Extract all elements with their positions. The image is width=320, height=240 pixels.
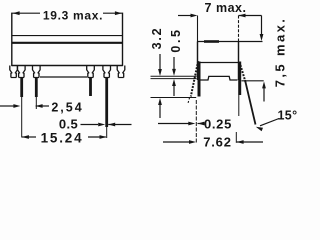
- pin 3 leg with extension to 2,54 dimension: [35, 78, 38, 98]
- seam line (end view): [198, 62, 239, 64]
- package body seam line: [12, 42, 123, 44]
- body bottom with raised centre step: [200, 76, 238, 80]
- right lead 15 deg splay (hatched): [240, 62, 246, 82]
- body left edge (end view): [197, 42, 199, 81]
- dimension 7.62 arrows and lines: [163, 141, 190, 143]
- dimension 0.5 arrows and lines: [81, 124, 99, 126]
- svg-text:7 max.: 7 max.: [205, 1, 247, 15]
- lead cross-section extension lines: [151, 75, 197, 77]
- dimension 2,54 arrows and lines: [0, 105, 15, 107]
- dimension 15.24 arrows and lines: [22, 135, 29, 139]
- pin 4 shoulder: [87, 66, 95, 78]
- pin 5 shoulder: [103, 66, 111, 78]
- svg-text:7,5 max.: 7,5 max.: [273, 17, 288, 88]
- body top edge with extension to 7,5 max.: [198, 41, 263, 43]
- extension line right (7.62): [235, 132, 237, 143]
- dimension 3.2 arrows: [159, 54, 161, 70]
- body right edge (end view): [238, 42, 240, 81]
- right lead splayed 15 deg (solid, extended): [245, 80, 256, 125]
- pin 6 (partial, right edge): [117, 66, 125, 78]
- extension line left (7 max.): [197, 16, 199, 42]
- svg-text:19.3 max.: 19.3 max.: [43, 9, 103, 23]
- extension line / body right edge: [122, 13, 124, 67]
- svg-text:7.62: 7.62: [203, 135, 232, 150]
- extension line from left lead tip: [195, 100, 197, 143]
- dimension 7 max. dimension line: [178, 15, 191, 17]
- svg-text:2,54: 2,54: [51, 101, 83, 115]
- right lead (end view): [238, 62, 241, 96]
- svg-text:3.2: 3.2: [150, 27, 164, 50]
- pin 5 leg with extension to 15.24 dimension: [105, 78, 108, 128]
- leader line for 15 deg: [260, 119, 279, 126]
- svg-text:15.24: 15.24: [41, 131, 84, 146]
- pin 4 leg: [89, 78, 92, 97]
- seating plane extension line (right): [242, 80, 264, 82]
- lead tip plane extension line: [151, 97, 197, 99]
- pin 1 (partial, left edge): [10, 66, 18, 78]
- left lead (end view): [198, 62, 201, 97]
- svg-text:15°: 15°: [277, 109, 297, 123]
- svg-text:0.5: 0.5: [169, 27, 183, 52]
- left lead 15 deg splay (hatched): [191, 61, 198, 97]
- dimension 7,5 max. arrows: [261, 16, 263, 35]
- pin 3 shoulder: [33, 66, 41, 78]
- dimension 0.5 arrows (lead thickness): [173, 57, 175, 70]
- pin 2 leg with extension to 15.24 dimension: [20, 78, 23, 98]
- index mark on top edge: [204, 40, 219, 43]
- svg-text:0.25: 0.25: [204, 117, 232, 132]
- package body top edge: [12, 35, 123, 37]
- dimension 19.3 max. dimension line: [12, 12, 40, 14]
- extension line right (7 max.): [238, 16, 240, 42]
- pin 2 shoulder: [18, 66, 26, 78]
- svg-text:0.5: 0.5: [59, 117, 78, 132]
- dimension 0.25 arrows and lines: [158, 123, 189, 125]
- package body bottom edge: [12, 65, 123, 67]
- seating plane line between pin groups: [40, 76, 87, 78]
- extension line / body left edge: [11, 13, 13, 67]
